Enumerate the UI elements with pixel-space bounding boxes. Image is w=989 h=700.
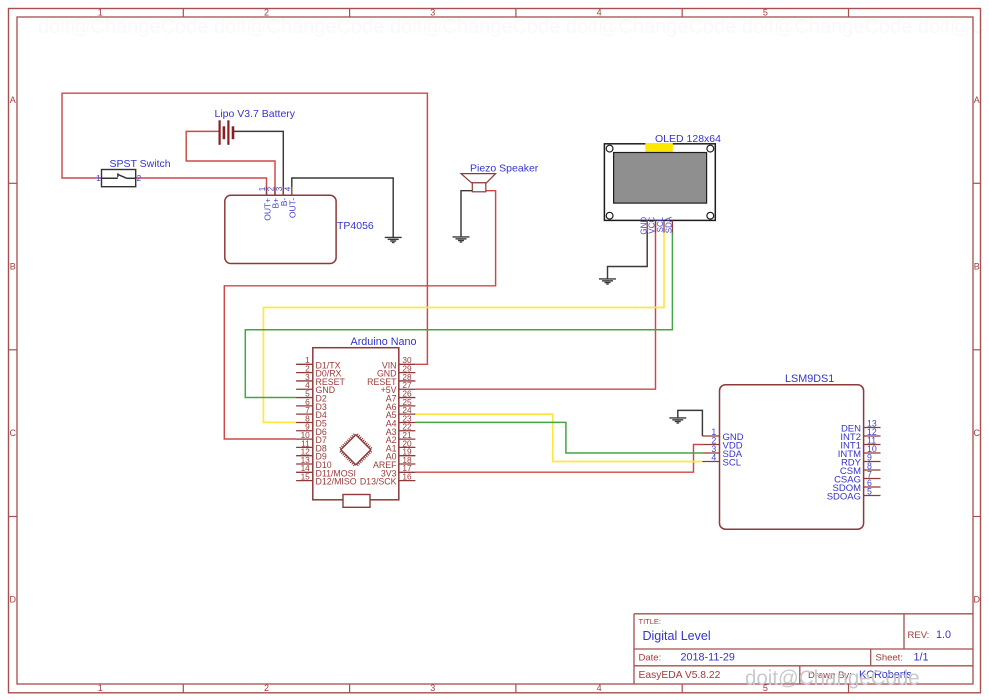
svg-text:4: 4	[597, 8, 602, 18]
svg-text:SCL: SCL	[723, 457, 741, 468]
svg-text:A: A	[10, 95, 16, 105]
svg-text:Lipo V3.7 Battery: Lipo V3.7 Battery	[215, 108, 296, 120]
svg-text:D12/MISO: D12/MISO	[316, 477, 357, 487]
svg-text:SDOAG: SDOAG	[827, 491, 861, 502]
svg-text:SPST Switch: SPST Switch	[110, 158, 171, 170]
svg-text:16: 16	[402, 472, 412, 482]
svg-text:C: C	[9, 428, 16, 438]
svg-text:C: C	[973, 428, 980, 438]
svg-text:1: 1	[98, 8, 103, 18]
svg-text:2: 2	[137, 173, 142, 183]
svg-text:LSM9DS1: LSM9DS1	[785, 373, 834, 385]
svg-text:1.0: 1.0	[936, 629, 951, 641]
svg-text:SDA: SDA	[665, 216, 674, 233]
svg-text:A: A	[974, 95, 980, 105]
svg-text:doit@ChangeCode: doit@ChangeCode	[745, 667, 920, 690]
svg-text:doit@ChangeCode doit@ChangeCod: doit@ChangeCode doit@ChangeCode doit@Cha…	[38, 16, 989, 38]
svg-text:2: 2	[264, 8, 269, 18]
svg-text:4: 4	[597, 683, 602, 693]
svg-text:OUT-: OUT-	[288, 198, 298, 218]
svg-text:REV:: REV:	[908, 630, 930, 641]
svg-text:1/1: 1/1	[914, 652, 929, 664]
svg-text:4: 4	[283, 186, 292, 191]
svg-text:5: 5	[867, 487, 872, 497]
svg-text:TITLE:: TITLE:	[639, 617, 662, 626]
svg-text:3: 3	[430, 683, 435, 693]
svg-text:5: 5	[763, 8, 768, 18]
svg-text:D: D	[9, 595, 16, 605]
svg-text:D: D	[973, 595, 980, 605]
svg-text:OLED 128x64: OLED 128x64	[655, 133, 721, 145]
svg-text:15: 15	[301, 472, 311, 482]
svg-text:Sheet:: Sheet:	[876, 653, 903, 664]
svg-text:B: B	[974, 262, 980, 272]
svg-text:EasyEDA V5.8.22: EasyEDA V5.8.22	[639, 670, 721, 681]
svg-text:2018-11-29: 2018-11-29	[681, 652, 735, 664]
svg-text:1: 1	[96, 173, 101, 183]
svg-text:TP4056: TP4056	[337, 220, 374, 232]
svg-text:Date:: Date:	[639, 653, 662, 664]
svg-text:Digital Level: Digital Level	[643, 629, 711, 643]
svg-text:4: 4	[711, 453, 716, 463]
svg-text:2: 2	[264, 683, 269, 693]
svg-text:D13/SCK: D13/SCK	[360, 477, 397, 487]
svg-text:3: 3	[430, 8, 435, 18]
svg-text:1: 1	[98, 683, 103, 693]
svg-text:Arduino Nano: Arduino Nano	[351, 336, 417, 348]
svg-text:Piezo Speaker: Piezo Speaker	[470, 163, 539, 175]
svg-text:B: B	[10, 262, 16, 272]
